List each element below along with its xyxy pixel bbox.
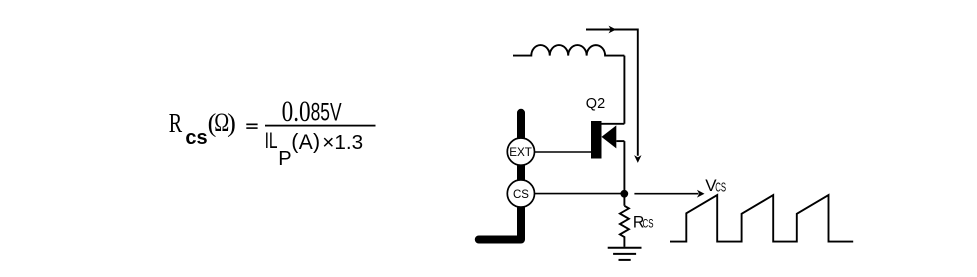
svg-text:A: A (299, 131, 313, 154)
inductor (513, 45, 624, 56)
wire source to resistor (623, 141, 625, 206)
svg-text:CS: CS (715, 181, 726, 195)
svg-text:0.0: 0.0 (282, 96, 311, 128)
svg-text:85V: 85V (311, 98, 342, 126)
svg-text:): ) (227, 108, 236, 137)
wire top current path (586, 30, 638, 156)
resistor Rcs zigzag (620, 206, 629, 247)
svg-text:IL: IL (265, 128, 278, 153)
arrowhead right (top) (609, 26, 617, 34)
waveform Vcs (670, 195, 853, 242)
formula equals (246, 124, 257, 126)
transistor Q2 arrow triangle (602, 125, 617, 148)
svg-text:P: P (278, 148, 291, 170)
pin EXT circle (507, 138, 534, 165)
svg-text:): ) (313, 129, 320, 153)
IC pin bar (479, 113, 521, 240)
arrowhead right (Vcs) (697, 190, 705, 198)
transistor Q2 drain lead (602, 123, 625, 125)
arrow to Vcs waveform (634, 193, 698, 195)
wire CS to junction (535, 193, 622, 195)
ground (608, 247, 642, 249)
svg-text:cs: cs (185, 127, 207, 149)
svg-text:CS: CS (643, 217, 654, 231)
svg-text:Q2: Q2 (586, 96, 605, 112)
fraction bar (265, 125, 376, 127)
svg-text:R: R (169, 108, 182, 138)
svg-text:EXT: EXT (509, 146, 532, 159)
svg-text:(: ( (291, 129, 298, 153)
svg-text:CS: CS (513, 189, 529, 201)
svg-text:×1.3: ×1.3 (322, 131, 363, 154)
transistor Q2 body bar (591, 121, 602, 159)
wire drain vertical (623, 56, 625, 124)
wire EXT to gate (535, 151, 591, 153)
pin CS circle (507, 180, 534, 207)
junction node (620, 190, 628, 198)
transistor Q2 source lead (616, 140, 624, 142)
arrowhead down (current path) (634, 155, 641, 163)
